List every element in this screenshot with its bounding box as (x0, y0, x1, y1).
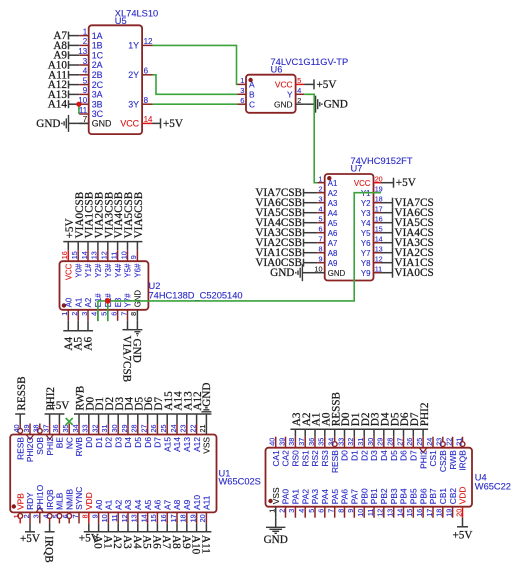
svg-text:18: 18 (435, 509, 444, 517)
svg-text:31: 31 (356, 438, 365, 446)
svg-text:14: 14 (80, 251, 89, 259)
svg-text:A13: A13 (182, 437, 192, 452)
svg-text:A15: A15 (162, 437, 172, 452)
svg-text:38: 38 (287, 438, 296, 446)
svg-text:A3: A3 (123, 499, 133, 510)
svg-text:A5: A5 (143, 499, 153, 510)
svg-text:21: 21 (198, 425, 207, 433)
svg-text:GND: GND (36, 118, 60, 130)
svg-text:A11: A11 (199, 535, 211, 554)
svg-text:C: C (249, 99, 255, 109)
svg-text:RESSB: RESSB (16, 376, 28, 410)
svg-text:PA2: PA2 (300, 489, 310, 505)
svg-text:Y8: Y8 (361, 259, 371, 268)
svg-text:10: 10 (119, 251, 128, 259)
svg-text:BE: BE (55, 437, 65, 449)
svg-text:13: 13 (130, 514, 139, 522)
svg-text:Y9: Y9 (361, 269, 371, 278)
svg-text:7: 7 (327, 509, 336, 513)
svg-text:16: 16 (415, 509, 424, 517)
svg-text:A8: A8 (172, 499, 182, 510)
svg-text:A14: A14 (172, 437, 182, 452)
svg-text:1: 1 (83, 27, 88, 36)
svg-text:CB1: CB1 (438, 488, 448, 505)
svg-text:PA5: PA5 (330, 489, 340, 505)
svg-text:19: 19 (444, 509, 453, 517)
svg-text:+5V: +5V (453, 529, 473, 541)
svg-text:Y0#: Y0# (74, 263, 83, 278)
svg-text:2: 2 (70, 312, 79, 316)
svg-text:12: 12 (100, 251, 109, 259)
svg-text:37: 37 (297, 438, 306, 446)
svg-text:E3: E3 (114, 298, 123, 308)
svg-text:CA1: CA1 (271, 450, 281, 467)
svg-text:8: 8 (81, 514, 90, 518)
svg-text:33: 33 (81, 425, 90, 433)
svg-text:Y7#: Y7# (124, 293, 133, 308)
svg-text:1Y: 1Y (128, 41, 139, 51)
svg-text:27: 27 (395, 438, 404, 446)
svg-text:PA6: PA6 (340, 489, 350, 505)
svg-text:RS3: RS3 (320, 450, 330, 467)
svg-text:13: 13 (90, 251, 99, 259)
svg-text:30: 30 (366, 438, 375, 446)
svg-text:Y3: Y3 (361, 209, 371, 218)
svg-text:11: 11 (79, 106, 88, 115)
svg-text:D7: D7 (153, 437, 163, 448)
svg-text:12: 12 (144, 37, 153, 46)
svg-text:VDD: VDD (458, 487, 468, 505)
svg-text:15: 15 (70, 251, 79, 259)
svg-text:A14: A14 (48, 99, 68, 111)
svg-text:Y: Y (287, 90, 293, 100)
svg-text:CS1: CS1 (428, 450, 438, 467)
svg-text:2Y: 2Y (128, 70, 139, 80)
svg-text:29: 29 (120, 425, 129, 433)
svg-text:11: 11 (110, 514, 119, 521)
svg-text:13: 13 (386, 509, 395, 517)
svg-text:16: 16 (60, 251, 69, 259)
svg-text:28: 28 (130, 425, 139, 433)
svg-text:8: 8 (129, 312, 138, 316)
svg-text:PHI1O: PHI1O (35, 484, 45, 510)
svg-text:24: 24 (169, 425, 178, 433)
svg-text:VIA0CS: VIA0CS (395, 267, 434, 279)
svg-text:PHI2: PHI2 (45, 437, 55, 456)
svg-text:17: 17 (425, 509, 434, 517)
svg-text:VCC: VCC (354, 179, 371, 188)
svg-text:+5V: +5V (163, 118, 183, 130)
svg-text:A9: A9 (182, 499, 192, 510)
svg-text:9: 9 (346, 509, 355, 513)
svg-text:2: 2 (22, 514, 31, 518)
svg-text:CA2: CA2 (281, 450, 291, 467)
svg-text:+5V: +5V (20, 533, 40, 545)
svg-text:16: 16 (159, 514, 168, 522)
svg-text:MLB: MLB (55, 492, 65, 510)
svg-text:Y7: Y7 (361, 249, 371, 258)
svg-text:10: 10 (356, 509, 365, 517)
svg-text:RDY: RDY (25, 492, 35, 510)
svg-text:18: 18 (179, 514, 188, 522)
svg-text:2C: 2C (92, 80, 104, 90)
svg-text:3: 3 (319, 195, 323, 204)
svg-text:39: 39 (22, 425, 31, 433)
svg-text:PA4: PA4 (320, 489, 330, 505)
svg-text:29: 29 (376, 438, 385, 446)
svg-text:GND: GND (324, 99, 348, 111)
svg-text:PA7: PA7 (350, 489, 360, 505)
svg-text:40: 40 (268, 438, 277, 446)
svg-text:Y4: Y4 (361, 219, 371, 228)
svg-text:32: 32 (90, 425, 99, 433)
svg-text:PHI2O: PHI2O (25, 437, 35, 463)
svg-text:7: 7 (119, 312, 128, 316)
svg-text:30: 30 (110, 425, 119, 433)
svg-text:34: 34 (327, 438, 336, 446)
svg-text:A4: A4 (133, 499, 143, 510)
svg-text:35: 35 (317, 438, 326, 446)
svg-text:Y2: Y2 (361, 199, 371, 208)
svg-text:GND: GND (274, 99, 293, 109)
svg-text:Y6: Y6 (361, 239, 371, 248)
svg-text:GND: GND (270, 267, 294, 279)
svg-text:7: 7 (71, 514, 80, 518)
svg-text:RS2: RS2 (310, 450, 320, 467)
svg-text:PA3: PA3 (310, 489, 320, 505)
svg-text:4: 4 (297, 86, 301, 95)
svg-text:A11: A11 (202, 495, 212, 510)
svg-text:26: 26 (405, 438, 414, 446)
svg-text:40: 40 (12, 425, 21, 433)
svg-text:RWB: RWB (448, 450, 458, 470)
svg-text:8: 8 (319, 245, 323, 254)
svg-text:A6: A6 (83, 337, 95, 351)
svg-text:24: 24 (425, 438, 434, 446)
svg-text:PA0: PA0 (281, 489, 291, 505)
svg-text:A1: A1 (328, 179, 338, 188)
svg-text:A3: A3 (328, 199, 338, 208)
svg-text:10: 10 (100, 514, 109, 522)
svg-text:A2: A2 (113, 499, 123, 510)
svg-text:D4: D4 (379, 450, 389, 461)
svg-text:19: 19 (188, 514, 197, 522)
svg-text:D0: D0 (84, 437, 94, 448)
svg-text:34: 34 (71, 425, 80, 433)
svg-text:CS2B: CS2B (438, 450, 448, 472)
svg-text:2B: 2B (92, 70, 103, 80)
svg-text:A6: A6 (328, 229, 338, 238)
svg-text:14: 14 (139, 514, 148, 522)
svg-text:+5V: +5V (49, 400, 69, 412)
svg-text:Y1#: Y1# (84, 263, 93, 278)
svg-text:1: 1 (240, 76, 244, 85)
svg-text:1: 1 (319, 175, 323, 184)
svg-text:36: 36 (307, 438, 316, 446)
svg-text:VCC: VCC (65, 263, 74, 280)
svg-text:A12: A12 (192, 437, 202, 452)
svg-text:15: 15 (405, 509, 414, 517)
svg-text:GND: GND (264, 534, 288, 546)
svg-text:PB3: PB3 (389, 488, 399, 504)
svg-text:38: 38 (32, 425, 41, 433)
svg-text:2: 2 (319, 185, 323, 194)
svg-text:1: 1 (12, 514, 21, 518)
svg-text:Y3#: Y3# (104, 263, 113, 278)
svg-text:3: 3 (83, 57, 88, 66)
svg-text:VDD: VDD (84, 492, 94, 510)
svg-text:17: 17 (169, 514, 178, 522)
svg-text:A2: A2 (84, 298, 93, 308)
svg-text:D5: D5 (133, 437, 143, 448)
svg-text:GND: GND (328, 269, 346, 278)
svg-text:PB2: PB2 (379, 488, 389, 504)
svg-text:D5: D5 (389, 450, 399, 461)
svg-text:20: 20 (454, 509, 463, 517)
svg-text:6: 6 (109, 312, 118, 316)
svg-text:RWB: RWB (74, 437, 84, 457)
svg-text:14: 14 (144, 115, 153, 124)
svg-text:37: 37 (41, 425, 50, 433)
svg-text:3: 3 (240, 86, 244, 95)
svg-text:25: 25 (415, 438, 424, 446)
svg-text:NMIB: NMIB (64, 489, 74, 510)
svg-text:RS0: RS0 (291, 450, 301, 467)
svg-text:14: 14 (395, 509, 404, 517)
svg-text:5: 5 (51, 514, 60, 518)
svg-text:A5: A5 (328, 219, 338, 228)
svg-text:1: 1 (268, 509, 277, 513)
svg-text:A8: A8 (328, 249, 338, 258)
svg-text:12: 12 (120, 514, 129, 522)
svg-text:23: 23 (435, 438, 444, 446)
svg-text:11: 11 (366, 509, 375, 516)
svg-text:VIA6CSB: VIA6CSB (133, 192, 145, 239)
svg-text:3A: 3A (92, 90, 103, 100)
svg-text:A7: A7 (162, 499, 172, 510)
svg-text:35: 35 (61, 425, 70, 433)
svg-text:39: 39 (277, 438, 286, 446)
svg-text:A2: A2 (328, 189, 338, 198)
svg-text:VSS: VSS (202, 437, 212, 454)
svg-text:PB0: PB0 (359, 488, 369, 504)
svg-text:3Y: 3Y (128, 99, 139, 109)
svg-text:D6: D6 (399, 450, 409, 461)
svg-text:Y4#: Y4# (114, 263, 123, 278)
svg-text:D0: D0 (340, 450, 350, 461)
svg-text:D3: D3 (369, 450, 379, 461)
svg-text:12: 12 (376, 509, 385, 517)
svg-text:3B: 3B (92, 99, 103, 109)
svg-text:8: 8 (144, 96, 149, 105)
svg-text:A10: A10 (192, 495, 202, 510)
svg-text:6: 6 (317, 509, 326, 513)
svg-text:1B: 1B (92, 41, 103, 51)
svg-text:15: 15 (149, 514, 158, 522)
svg-text:PB1: PB1 (369, 488, 379, 504)
svg-text:CB2: CB2 (448, 488, 458, 505)
svg-text:9: 9 (129, 255, 138, 259)
svg-text:GND: GND (92, 119, 112, 129)
svg-text:U5: U5 (115, 16, 127, 26)
svg-text:2A: 2A (92, 60, 103, 70)
svg-text:A6: A6 (153, 499, 163, 510)
svg-text:5: 5 (83, 76, 88, 85)
svg-text:5: 5 (319, 215, 323, 224)
svg-text:1A: 1A (92, 31, 103, 41)
svg-text:A0: A0 (94, 499, 104, 510)
svg-text:21: 21 (454, 438, 463, 446)
svg-text:6: 6 (144, 67, 149, 76)
svg-text:D1: D1 (350, 450, 360, 461)
svg-text:Y2#: Y2# (94, 263, 103, 278)
svg-text:PHI2: PHI2 (419, 403, 431, 427)
svg-text:VSS: VSS (271, 487, 281, 504)
svg-text:SYNC: SYNC (74, 487, 84, 510)
svg-text:5: 5 (307, 509, 316, 513)
svg-text:U6: U6 (271, 65, 283, 75)
svg-text:6: 6 (240, 96, 244, 105)
svg-text:2: 2 (297, 96, 301, 105)
svg-text:GND: GND (201, 383, 213, 407)
svg-text:3: 3 (32, 514, 41, 518)
svg-text:SOB: SOB (35, 437, 45, 455)
svg-text:A: A (249, 80, 255, 90)
svg-text:4: 4 (319, 205, 323, 214)
svg-text:VCC: VCC (120, 119, 139, 129)
svg-text:RS1: RS1 (300, 450, 310, 467)
svg-text:GND: GND (134, 290, 143, 308)
svg-text:GND: GND (130, 339, 142, 363)
svg-text:PB7: PB7 (428, 488, 438, 504)
svg-text:Y5#: Y5# (124, 263, 133, 278)
svg-text:31: 31 (100, 425, 109, 433)
svg-text:D3: D3 (113, 437, 123, 448)
svg-text:Y5: Y5 (361, 229, 371, 238)
svg-text:D7: D7 (409, 450, 419, 461)
svg-text:U2: U2 (149, 281, 161, 291)
svg-text:Y6#: Y6# (134, 263, 143, 278)
svg-text:25: 25 (159, 425, 168, 433)
svg-text:VPB: VPB (15, 493, 25, 510)
svg-text:2: 2 (277, 509, 286, 513)
svg-text:IRQB: IRQB (43, 536, 55, 563)
svg-text:9: 9 (319, 255, 323, 264)
svg-text:2: 2 (83, 37, 88, 46)
svg-text:1: 1 (60, 312, 69, 316)
svg-text:8: 8 (336, 509, 345, 513)
svg-text:13: 13 (78, 47, 87, 56)
svg-text:3: 3 (287, 509, 296, 513)
svg-text:PB4: PB4 (399, 488, 409, 504)
svg-text:RESB: RESB (330, 450, 340, 473)
svg-text:A1: A1 (104, 499, 114, 510)
svg-text:D2: D2 (359, 450, 369, 461)
svg-text:IRQB: IRQB (458, 450, 468, 471)
svg-text:D4: D4 (123, 437, 133, 448)
svg-text:A0: A0 (65, 297, 74, 307)
svg-text:IRQB: IRQB (45, 489, 55, 510)
svg-text:+5V: +5V (317, 79, 337, 91)
svg-text:A9: A9 (328, 259, 338, 268)
svg-text:11: 11 (109, 252, 118, 259)
svg-text:22: 22 (444, 438, 453, 446)
svg-text:D2: D2 (104, 437, 114, 448)
svg-text:20: 20 (198, 514, 207, 522)
svg-text:U7: U7 (351, 163, 363, 173)
svg-text:9: 9 (90, 514, 99, 518)
svg-text:33: 33 (336, 438, 345, 446)
svg-text:3: 3 (80, 312, 89, 316)
svg-text:1C: 1C (92, 50, 104, 60)
svg-text:VCC: VCC (275, 80, 293, 90)
svg-text:36: 36 (51, 425, 60, 433)
svg-text:22: 22 (188, 425, 197, 433)
svg-text:PHI2: PHI2 (418, 450, 428, 469)
svg-text:A7: A7 (328, 239, 338, 248)
svg-text:32: 32 (346, 438, 355, 446)
svg-text:+5V: +5V (396, 177, 416, 189)
svg-text:B: B (249, 90, 255, 100)
svg-text:RESB: RESB (15, 437, 25, 460)
svg-text:28: 28 (386, 438, 395, 446)
svg-text:27: 27 (139, 425, 148, 433)
svg-text:9: 9 (83, 86, 88, 95)
svg-text:4: 4 (83, 67, 88, 76)
svg-text:A1: A1 (74, 298, 83, 308)
svg-text:6: 6 (61, 514, 70, 518)
svg-text:PB6: PB6 (418, 488, 428, 504)
svg-text:A4: A4 (328, 209, 338, 218)
svg-text:PA1: PA1 (291, 489, 301, 505)
svg-text:W65C22: W65C22 (475, 481, 511, 491)
svg-text:74HC138D_C5205140: 74HC138D_C5205140 (149, 291, 243, 301)
svg-text:4: 4 (297, 509, 306, 513)
svg-text:NC: NC (64, 437, 74, 449)
svg-text:PB5: PB5 (409, 488, 419, 504)
svg-text:4: 4 (41, 514, 50, 518)
svg-text:D1: D1 (94, 437, 104, 448)
svg-text:D6: D6 (143, 437, 153, 448)
svg-text:W65C02S: W65C02S (219, 477, 261, 487)
svg-text:6: 6 (319, 225, 323, 234)
svg-text:5: 5 (297, 76, 301, 85)
svg-text:23: 23 (179, 425, 188, 433)
svg-text:26: 26 (149, 425, 158, 433)
svg-text:7: 7 (319, 235, 323, 244)
